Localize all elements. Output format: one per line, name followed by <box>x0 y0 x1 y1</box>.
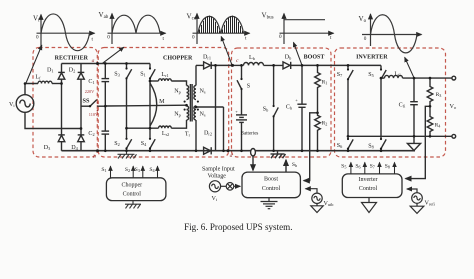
svg-text:Inverter: Inverter <box>359 177 378 183</box>
svg-text:Cfi: Cfi <box>399 103 407 109</box>
svg-text:Np: Np <box>174 112 181 118</box>
svg-text:S4: S4 <box>141 141 147 147</box>
svg-text:S8: S8 <box>385 163 390 169</box>
svg-text:BOOST: BOOST <box>304 55 325 61</box>
svg-text:S7: S7 <box>370 163 375 169</box>
svg-text:Vi: Vi <box>212 196 218 202</box>
svg-text:Vrefi: Vrefi <box>425 201 436 207</box>
svg-text:Sb: Sb <box>263 107 269 113</box>
svg-text:S1: S1 <box>140 72 146 78</box>
svg-text:S2: S2 <box>114 141 120 147</box>
svg-text:INVERTER: INVERTER <box>356 55 388 61</box>
svg-text:M: M <box>159 99 165 105</box>
svg-text:R3: R3 <box>436 92 442 98</box>
svg-text:Lr2: Lr2 <box>162 131 169 137</box>
svg-text:D2: D2 <box>69 67 76 73</box>
svg-text:Control: Control <box>123 192 142 198</box>
svg-text:+: + <box>295 98 298 103</box>
svg-text:S4: S4 <box>149 167 155 173</box>
svg-text:Lfi: Lfi <box>394 71 401 77</box>
svg-text:Ns: Ns <box>199 89 205 95</box>
svg-text:Db: Db <box>285 55 292 61</box>
svg-text:S2: S2 <box>125 167 130 173</box>
svg-text:Control: Control <box>262 186 281 192</box>
svg-text:b: b <box>93 154 96 160</box>
svg-text:Dr1: Dr1 <box>203 55 211 61</box>
svg-text:0: 0 <box>36 35 39 41</box>
svg-text:Voltage: Voltage <box>208 174 227 180</box>
svg-text:Batteries: Batteries <box>241 131 259 136</box>
svg-text:S5: S5 <box>341 163 346 169</box>
svg-text:+: + <box>235 109 238 114</box>
svg-text:110V: 110V <box>89 112 99 117</box>
svg-text:Vo: Vo <box>450 103 457 110</box>
svg-text:C2: C2 <box>88 131 94 137</box>
svg-text:0: 0 <box>364 36 367 42</box>
svg-text:S6: S6 <box>337 143 343 149</box>
svg-text:R4: R4 <box>435 122 442 128</box>
svg-text:D4: D4 <box>71 145 78 151</box>
svg-text:Lb: Lb <box>249 55 255 61</box>
svg-text:C1: C1 <box>88 79 94 85</box>
svg-text:S7: S7 <box>337 72 343 78</box>
svg-text:CHOPPER: CHOPPER <box>163 55 193 61</box>
svg-text:Dr2: Dr2 <box>204 131 212 137</box>
svg-text:Boost: Boost <box>264 177 278 183</box>
svg-text:SS: SS <box>83 97 90 104</box>
svg-text:Np: Np <box>174 89 181 95</box>
svg-text:Control: Control <box>359 186 378 192</box>
svg-text:S3: S3 <box>135 167 140 173</box>
svg-text:S3: S3 <box>114 72 120 78</box>
svg-text:Sample Input: Sample Input <box>202 166 235 172</box>
svg-text:0: 0 <box>192 35 195 41</box>
svg-text:Fig. 6. Proposed UPS system.: Fig. 6. Proposed UPS system. <box>184 222 292 232</box>
svg-text:R2: R2 <box>322 120 328 126</box>
svg-text:Vutb: Vutb <box>324 201 334 207</box>
svg-text:S6: S6 <box>355 163 360 169</box>
svg-text:Chopper: Chopper <box>121 182 142 188</box>
svg-text:Lf: Lf <box>35 75 41 81</box>
svg-text:S5: S5 <box>368 72 374 78</box>
svg-text:a: a <box>92 58 95 64</box>
svg-text:RECTIFIER: RECTIFIER <box>55 55 89 61</box>
svg-text:D3: D3 <box>44 145 51 151</box>
svg-text:Cb: Cb <box>286 105 292 111</box>
svg-text:Ns: Ns <box>199 112 205 118</box>
svg-text:220V: 220V <box>85 89 95 94</box>
svg-text:S1: S1 <box>101 167 106 173</box>
svg-text:Vi: Vi <box>9 102 15 108</box>
svg-text:Lr1: Lr1 <box>161 72 168 78</box>
svg-text:0: 0 <box>279 34 282 40</box>
svg-text:d: d <box>230 153 233 159</box>
svg-text:Tr: Tr <box>185 132 191 138</box>
svg-text:Sb: Sb <box>292 162 297 168</box>
svg-text:S8: S8 <box>368 144 374 150</box>
svg-text:D1: D1 <box>47 68 54 74</box>
svg-text:0: 0 <box>107 35 110 41</box>
svg-text:R1: R1 <box>322 79 328 85</box>
